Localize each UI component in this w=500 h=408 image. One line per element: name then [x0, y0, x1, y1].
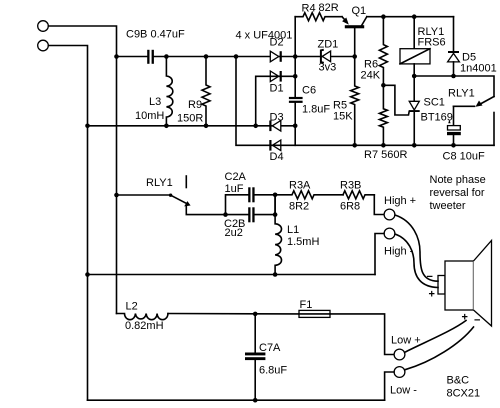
svg-text:High +: High + [384, 195, 416, 207]
wire SC1 gate from R6/R7 node [383, 85, 409, 115]
junction dot [381, 14, 386, 19]
junction dot [412, 14, 417, 19]
svg-text:Low +: Low + [391, 335, 421, 347]
svg-text:Note phase: Note phase [430, 174, 486, 186]
svg-text:R7 560R: R7 560R [364, 149, 407, 161]
resistor R7 [379, 85, 387, 145]
junction dot [253, 398, 258, 403]
wire mid rail [88, 274, 376, 276]
resistor R3B [343, 191, 374, 199]
svg-text:3v3: 3v3 [319, 62, 337, 74]
resistor R3A [275, 191, 343, 199]
wire relay coil to SC1 anode [413, 64, 415, 102]
wire High+ to tweeter - terminal [395, 215, 438, 281]
svg-text:8R2: 8R2 [289, 201, 309, 213]
svg-text:1uF: 1uF [225, 183, 244, 195]
junction dot [293, 74, 298, 79]
junction dot [273, 193, 278, 198]
junction dot [273, 212, 278, 217]
wire C2A branch [226, 195, 249, 215]
wire L2 to F1 [168, 313, 299, 315]
diode D2 [270, 51, 280, 62]
junction dot [223, 212, 228, 217]
diode D1 [270, 71, 280, 82]
junction dot [114, 193, 119, 198]
junction dot [352, 54, 357, 59]
wire bottom rail [88, 399, 385, 401]
svg-text:High -: High - [384, 246, 414, 258]
svg-text:1n4001: 1n4001 [460, 63, 497, 75]
junction dot [381, 143, 386, 148]
svg-text:C2A: C2A [225, 171, 247, 183]
svg-text:−: − [427, 271, 433, 283]
wire F1 to Low+ [330, 314, 394, 355]
wire Low+ to woofer + terminal [405, 321, 466, 353]
svg-text:C9B 0.47uF: C9B 0.47uF [126, 29, 185, 41]
svg-text:FRS6: FRS6 [418, 37, 446, 49]
svg-text:SC1: SC1 [424, 97, 445, 109]
speaker B&C 8CX21 [438, 241, 492, 327]
svg-text:+: + [462, 312, 468, 324]
junction dot [85, 124, 90, 129]
svg-text:reversal for: reversal for [430, 187, 485, 199]
wire D1 anode branch [256, 76, 296, 126]
svg-text:150R: 150R [177, 113, 203, 125]
diode D4 [270, 140, 280, 151]
capacitor C8 [447, 126, 461, 146]
inductor L1 [275, 195, 281, 275]
junction dot [451, 143, 456, 148]
diode D3 [270, 121, 280, 132]
transistor Q1 [342, 17, 367, 57]
wire C6 bottom to bottom rail [294, 103, 296, 145]
capacitor C2A [248, 187, 254, 202]
junction dot [164, 124, 169, 129]
thyristor SC1 [409, 101, 420, 145]
tweeter polarity signs [427, 271, 435, 301]
zener diode ZD1 [321, 50, 331, 63]
junction dot [352, 143, 357, 148]
svg-text:Low -: Low - [390, 385, 417, 397]
svg-text:R9: R9 [188, 99, 202, 111]
svg-text:24K: 24K [361, 70, 381, 82]
svg-text:C6: C6 [302, 85, 316, 97]
svg-text:D4: D4 [270, 151, 284, 163]
svg-text:Q1: Q1 [352, 5, 367, 17]
svg-text:BT169: BT169 [421, 112, 453, 124]
terminal High+ [384, 209, 395, 220]
svg-text:C7A: C7A [259, 342, 281, 354]
annotation arrow near BT169 [448, 120, 450, 124]
junction dot [204, 54, 209, 59]
svg-text:8CX21: 8CX21 [447, 388, 481, 400]
wire Low- to woofer - terminal [405, 327, 474, 370]
resistor R6 [379, 17, 387, 86]
svg-text:L1: L1 [287, 224, 299, 236]
terminal Low- [394, 367, 405, 378]
wire High- to tweeter + terminal [395, 234, 438, 288]
junction dot [412, 143, 417, 148]
terminal Low+ [394, 349, 405, 360]
wire relay coil bottom node to right [414, 76, 494, 97]
wire C2B to node [255, 195, 276, 215]
wire High- to mid rail [375, 234, 384, 275]
svg-text:ZD1: ZD1 [318, 39, 339, 51]
relay contact RLY1 (mid) [117, 176, 226, 215]
svg-text:0.82mH: 0.82mH [125, 320, 164, 332]
fuse F1 [299, 310, 330, 317]
svg-text:RLY1: RLY1 [448, 88, 475, 100]
svg-text:6.8uF: 6.8uF [259, 365, 287, 377]
junction dot [273, 272, 278, 277]
capacitor C6 [289, 97, 303, 103]
junction dot [114, 54, 119, 59]
svg-text:D1: D1 [270, 83, 284, 95]
svg-text:1.5mH: 1.5mH [287, 236, 319, 248]
svg-text:B&C: B&C [447, 375, 470, 387]
junction dot [164, 54, 169, 59]
wire R3B to High+ [374, 195, 384, 215]
svg-text:R3A: R3A [289, 180, 311, 192]
svg-text:R3B: R3B [340, 180, 361, 192]
svg-text:D2: D2 [270, 37, 284, 49]
svg-text:tweeter: tweeter [430, 200, 466, 212]
relay coil RLY1 FRS6 [400, 49, 430, 64]
svg-text:2u2: 2u2 [225, 227, 243, 239]
junction dot [293, 54, 298, 59]
wire top rail from C9B to Q1 base node [154, 56, 355, 58]
resistor R5 [351, 57, 359, 146]
terminal High- [384, 228, 395, 239]
wire C2B left [226, 214, 249, 216]
junction dot [204, 124, 209, 129]
relay contact RLY1 (right) [454, 97, 495, 146]
inductor L2 [117, 314, 169, 320]
diode D5 [448, 17, 460, 76]
svg-text:F1: F1 [300, 299, 313, 311]
input terminal J1 (top) [38, 21, 49, 32]
svg-text:4 x UF4001: 4 x UF4001 [236, 30, 293, 42]
svg-text:RLY1: RLY1 [146, 177, 173, 189]
wire contact to C8 [453, 106, 455, 125]
svg-text:82R: 82R [319, 2, 339, 14]
wire rail to relay coil [413, 17, 415, 49]
junction dot [381, 83, 386, 88]
junction dot [253, 124, 258, 129]
wire top rail left segment to C9B [117, 56, 148, 58]
wire C2A to node [255, 194, 276, 196]
svg-text:R4: R4 [302, 3, 316, 15]
svg-text:15K: 15K [333, 111, 353, 123]
svg-text:−: − [474, 315, 480, 327]
svg-text:6R8: 6R8 [340, 201, 360, 213]
wire from J1 to top rail [49, 26, 117, 57]
wire mid rail (D3 line) [88, 125, 296, 127]
capacitor C7A [245, 314, 265, 400]
capacitor C9B [147, 50, 154, 64]
svg-text:D3: D3 [270, 112, 284, 124]
wire Q1 collector rail to right [367, 16, 454, 18]
input terminal J2 (bottom) [38, 40, 49, 51]
wire D4 branch from top rail [236, 57, 494, 146]
junction dot [253, 312, 258, 317]
svg-text:C8 10uF: C8 10uF [443, 151, 485, 163]
inductor L3 [166, 57, 172, 126]
wire R4 branch down through C6 [294, 17, 296, 97]
wire Low- to bottom rail [385, 372, 394, 400]
junction dot [451, 74, 456, 79]
junction dot [234, 54, 239, 59]
woofer polarity signs [462, 312, 481, 327]
svg-text:1.8uF: 1.8uF [302, 104, 330, 116]
wire vertical bus from top rail down to L2 [116, 57, 118, 314]
svg-text:+: + [429, 289, 435, 301]
junction dot [293, 124, 298, 129]
capacitor C2B [248, 207, 254, 222]
junction dot [85, 272, 90, 277]
resistor R4 [295, 13, 342, 21]
wire from J2 down left bus [49, 46, 88, 401]
svg-text:L2: L2 [126, 301, 138, 313]
svg-text:L3: L3 [149, 96, 161, 108]
resistor R9 [202, 57, 210, 126]
svg-text:10mH: 10mH [135, 110, 164, 122]
junction dot [412, 74, 417, 79]
